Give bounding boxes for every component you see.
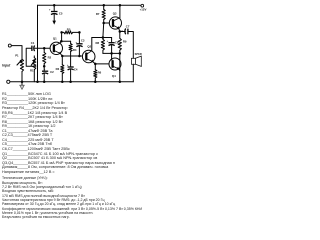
capacitor C5 plates [51,11,58,13]
svg-text:+12V: +12V [140,7,147,11]
wire R9 bottom to rail [119,50,121,82]
wire loop top [92,37,112,39]
svg-text:+: + [107,39,109,43]
resistor R2 [43,52,46,63]
wire left wall [37,5,39,82]
capacitor C3 plates [76,43,82,45]
arrowhead P1 [20,59,23,62]
svg-text:P1: P1 [15,53,19,57]
svg-text:C6: C6 [115,40,119,44]
arrowhead Q3 emitter [117,26,120,29]
wire C7 to speaker corner [128,32,133,59]
svg-text:R2: R2 [48,56,52,60]
wire Q4 collector [111,53,113,58]
resistor R7 leads [103,5,105,23]
wire bottom rail [10,81,133,83]
wire Q3 collector to rail [119,5,121,18]
svg-text:Q1: Q1 [53,37,57,41]
svg-text:R1: R1 [30,68,34,72]
svg-text:+: + [44,67,46,71]
wire Q1 emitter node [60,54,62,57]
resistor R5 [64,31,73,34]
transistor Q2 [82,50,95,63]
resistor P1 [20,59,23,72]
wire emitter node down to R9 [119,32,121,39]
svg-text:R3: R3 [56,67,60,71]
component labels [2,7,147,78]
arrowhead Q1 emitter [59,52,62,55]
+12V terminal [141,4,144,7]
wire top rail [38,4,141,6]
potentiometer P1 wiper arrow [17,60,22,65]
wire R2 bottom node [43,64,45,67]
resistor R3 [61,65,64,74]
wire Q4 emitter down [118,69,120,71]
capacitor C2 plates [42,70,48,72]
svg-text:R7: R7 [96,12,100,16]
potentiometer R1 wiper arrow [31,59,35,65]
svg-text:C2: C2 [50,70,54,74]
resistor R3 leads [61,56,63,82]
svg-text:C1: C1 [31,41,35,45]
svg-text:C7: C7 [126,24,130,28]
wire Q3 emitter node [119,28,126,31]
parts list [2,92,115,174]
transistor Q4 [109,58,121,70]
wire Q2 emitter to node [93,62,96,64]
input terminal [8,44,11,47]
arrowhead Q4 emitter [117,67,120,70]
transistor Q1 [50,42,62,54]
ground stem [21,82,23,85]
junction dots [53,4,56,7]
resistor R6 leads [94,64,96,82]
resistor R1 [33,58,36,70]
svg-text:Input: Input [2,64,11,68]
capacitor C4 leads [70,56,72,82]
resistor R6 [94,70,97,78]
svg-text:+: + [49,8,51,12]
svg-text:Q4: Q4 [112,74,116,78]
capacitor C4 plates [68,66,74,68]
capacitor C3 leads [78,32,80,56]
wire R7 node down to R8 loop [102,23,105,38]
svg-text:R9: R9 [123,40,127,44]
resistor R8 [101,39,104,50]
transistor Q3 [109,17,121,29]
arrow down from C5 [53,14,55,21]
svg-text:R5: R5 [67,27,71,31]
technical data block [2,176,142,219]
wire loop bottom [103,52,120,54]
svg-text:C3: C3 [81,39,85,43]
wire R7 to Q3 base [104,22,110,24]
svg-text:C5: C5 [59,11,63,15]
wire Q1 collector junction [60,32,62,43]
svg-text:C4: C4 [74,68,78,72]
wire collector to R4 [60,40,70,42]
ground symbol [20,85,25,89]
wire C1 to Q1 base [35,47,50,49]
svg-text:R8: R8 [96,41,100,45]
svg-text:Q3: Q3 [113,12,117,16]
resistor R8 leads [102,38,104,54]
ground terminal [7,80,10,83]
wire emitter line to Q2 base [62,55,82,57]
wire speaker to rail [132,64,134,82]
capacitor C2 leads [43,66,45,82]
capacitor C7 plates [127,29,129,35]
svg-text:R6: R6 [98,71,102,75]
resistor R4 [69,44,72,52]
svg-text:SPKR: SPKR [135,52,142,56]
wire C1 left lead down [26,48,36,66]
resistor R4 leads [70,41,72,56]
svg-text:R4: R4 [73,48,77,52]
wire input to P1 [11,46,22,59]
speaker SPKR [132,56,142,66]
arrowhead C5 down [52,21,56,25]
arrowhead R1 [33,59,36,62]
wire loop left to Q2 collector [91,38,93,51]
wire Q2 node to Q4 base [95,63,109,65]
resistor R2 top lead [43,48,45,52]
resistor R1 leads [33,56,35,82]
resistor R9 [118,38,121,50]
capacitor C1 plates [31,46,33,51]
wire C6 leads [111,38,113,54]
resistor R7 [102,9,105,19]
arrowhead Q2 emitter [91,60,94,63]
svg-text:Q2: Q2 [87,45,91,49]
capacitor C5 lead [53,5,55,11]
resistor R5 leads [62,31,80,33]
wire P1 bottom [21,72,23,82]
capacitor C6 plates [109,42,115,44]
